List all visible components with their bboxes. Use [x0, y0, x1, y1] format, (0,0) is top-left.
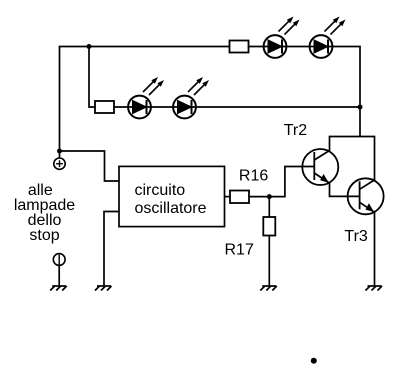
ground (Tr3 emitter)	[366, 286, 383, 291]
svg-text:Tr3: Tr3	[344, 228, 368, 245]
wire collector tee bar	[330, 136, 375, 138]
svg-text:stop: stop	[29, 227, 59, 244]
node: left rail / box feed junction	[57, 149, 62, 154]
stray dot bottom right	[311, 358, 317, 364]
transistor Tr3	[348, 178, 384, 214]
ground (R17)	[260, 286, 277, 291]
wire lower terminal to ground	[58, 265, 60, 285]
wire Tr3 emitter to ground	[374, 212, 376, 286]
wire plus terminal to oscillator box	[60, 151, 120, 181]
svg-text:R16: R16	[239, 167, 268, 184]
svg-text:R17: R17	[225, 242, 254, 259]
wire box to R16	[225, 196, 231, 198]
node: top rail / LED row junction	[87, 44, 92, 49]
wire Tr2 collector drop	[329, 136, 331, 151]
svg-text:oscillatore: oscillatore	[135, 200, 207, 217]
transistor Tr2	[302, 149, 338, 185]
wire main loop: left vertical, top rail, right vertical	[60, 47, 361, 158]
wire oscillator box lower stub to ground	[104, 212, 119, 286]
lower terminal	[53, 254, 65, 266]
resistor R17	[263, 217, 275, 236]
ground (terminal)	[50, 286, 66, 291]
oscillator box U1	[119, 166, 225, 226]
resistor (row 1 series)	[230, 41, 249, 53]
wire second LED row branch	[89, 47, 360, 108]
svg-text:circuito: circuito	[135, 182, 186, 199]
resistor R16	[230, 191, 249, 204]
node: R16 / R17 / Tr2 base junction	[267, 194, 272, 199]
wire Tr2 emitter to Tr3 base	[330, 183, 360, 196]
LED row2 #1	[128, 77, 164, 118]
ground (oscillator box)	[95, 286, 112, 291]
wire Tr3 collector drop	[374, 136, 376, 180]
wire R16 to Tr2 base	[249, 167, 314, 197]
resistor (row 2 series)	[95, 101, 114, 113]
svg-text:Tr2: Tr2	[284, 122, 308, 139]
node: LED row 2 / right rail junction	[358, 105, 363, 110]
LED row1 #2	[310, 17, 346, 58]
plus terminal	[54, 158, 65, 169]
LED row2 #2	[173, 77, 209, 118]
wire R17 to ground	[268, 236, 270, 286]
LED row1 #1	[264, 17, 300, 58]
wire junction down to R17	[268, 197, 270, 217]
